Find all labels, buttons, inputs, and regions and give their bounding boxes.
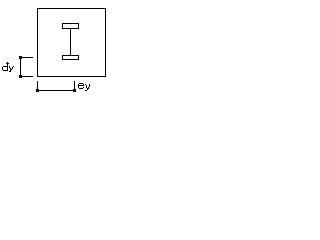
label ey: letter e (78, 83, 84, 89)
ey dimension right tick (74, 81, 75, 91)
I-beam bottom flange (63, 56, 79, 60)
dy dimension bottom tick (20, 76, 33, 77)
outer square section (38, 9, 106, 77)
label dy: subscript y (9, 66, 14, 72)
I-beam web (70, 29, 71, 55)
ey dimension right dot (73, 89, 76, 92)
dy dimension top dot (19, 56, 22, 59)
I-beam top flange (63, 24, 79, 29)
label dy: letter d (2, 62, 9, 71)
dy dimension bottom dot (19, 75, 22, 78)
dy dimension vertical line (20, 57, 21, 77)
ey dimension horizontal line (37, 90, 75, 91)
ey dimension left tick (37, 81, 38, 91)
ey dimension left dot (36, 89, 39, 92)
dy dimension top tick (20, 57, 33, 58)
label ey: subscript y (85, 84, 90, 91)
